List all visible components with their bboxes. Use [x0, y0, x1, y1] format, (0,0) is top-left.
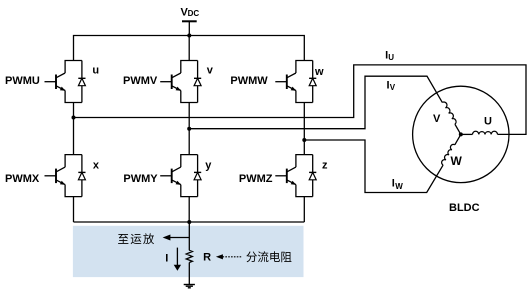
svg-text:V: V: [390, 83, 396, 92]
svg-text:U: U: [388, 53, 394, 62]
svg-text:PWMX: PWMX: [5, 173, 40, 185]
svg-text:R: R: [203, 252, 211, 264]
svg-text:PWMW: PWMW: [230, 75, 268, 87]
svg-text:U: U: [484, 115, 492, 127]
svg-text:PWMV: PWMV: [123, 75, 158, 87]
svg-text:W: W: [395, 182, 403, 191]
svg-text:至运放: 至运放: [118, 232, 156, 246]
svg-text:u: u: [92, 65, 99, 77]
svg-text:分流电阻: 分流电阻: [246, 250, 292, 264]
svg-text:W: W: [451, 154, 463, 168]
svg-text:V: V: [433, 113, 441, 125]
svg-text:y: y: [205, 159, 212, 171]
svg-text:x: x: [93, 159, 100, 171]
svg-text:z: z: [322, 159, 328, 171]
svg-text:PWMY: PWMY: [123, 173, 158, 185]
svg-text:DC: DC: [188, 9, 200, 18]
svg-text:BLDC: BLDC: [449, 202, 480, 214]
svg-text:PWMU: PWMU: [5, 75, 40, 87]
svg-text:v: v: [207, 65, 214, 77]
svg-text:w: w: [314, 66, 324, 78]
svg-text:PWMZ: PWMZ: [239, 173, 273, 185]
svg-text:I: I: [165, 252, 168, 264]
